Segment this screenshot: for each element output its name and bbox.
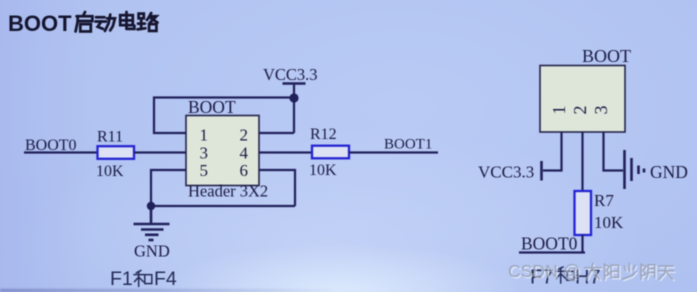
- caption F7和H7: [530, 267, 601, 289]
- power bar VCC3.3 (right): [540, 161, 543, 181]
- junction dot ground: [147, 202, 155, 210]
- wire R11 to header pin 3: [134, 151, 186, 153]
- svg-text:F4: F4: [154, 268, 177, 290]
- svg-text:BOOT0: BOOT0: [521, 234, 578, 254]
- wire pin2 to R7: [581, 132, 583, 191]
- svg-text:2: 2: [570, 106, 590, 115]
- svg-text:10K: 10K: [309, 162, 337, 179]
- resistor R11: [98, 146, 135, 159]
- svg-text:R11: R11: [97, 129, 123, 146]
- svg-text:GND: GND: [134, 242, 170, 261]
- wire pin5 to ground: [151, 170, 186, 206]
- connector J1 Header 3X2: [186, 116, 259, 186]
- svg-text:10K: 10K: [96, 163, 124, 180]
- wire pin3 to GND: [604, 132, 624, 171]
- wire VCC vertical: [293, 84, 295, 134]
- wire pin4 to R12: [259, 151, 312, 153]
- svg-text:BOOT1: BOOT1: [384, 137, 432, 153]
- watermark CSDN @太阳少阴天: [510, 263, 676, 283]
- svg-text:Header 3X2: Header 3X2: [188, 182, 268, 201]
- svg-text:F1: F1: [110, 268, 133, 290]
- svg-text:R7: R7: [594, 191, 614, 210]
- wire R7 to BOOT0: [581, 235, 583, 252]
- svg-text:VCC3.3: VCC3.3: [263, 65, 318, 84]
- caption F1和F4: [110, 268, 177, 290]
- svg-text:6: 6: [240, 161, 249, 180]
- svg-text:GND: GND: [650, 162, 688, 182]
- wire R12 to BOOT1: [349, 151, 438, 153]
- ground symbol (left): [134, 206, 170, 240]
- resistor R7: [575, 191, 592, 235]
- svg-text:BOOT: BOOT: [188, 97, 236, 117]
- wire pin6 to ground: [259, 170, 295, 206]
- svg-text:BOOT: BOOT: [582, 46, 631, 66]
- wire ground bottom run: [151, 205, 295, 207]
- svg-text:2: 2: [240, 126, 249, 145]
- svg-text:4: 4: [240, 144, 249, 163]
- wire pin2 to VCC: [259, 132, 294, 134]
- ground symbol (right, rotated): [625, 150, 645, 189]
- svg-text:3: 3: [591, 106, 611, 115]
- wire pin1 loop to VCC: [154, 98, 294, 134]
- wire pin1 to VCC3.3: [543, 132, 562, 171]
- svg-text:1: 1: [200, 126, 209, 145]
- wire BOOT0 underline: [519, 251, 585, 253]
- svg-text:BOOT: BOOT: [8, 11, 72, 36]
- title BOOT启动电路: [8, 11, 157, 36]
- svg-text:R12: R12: [310, 126, 337, 143]
- connector P1 BOOT header: [540, 66, 625, 133]
- junction dot VCC: [289, 93, 298, 102]
- svg-text:1: 1: [549, 106, 569, 115]
- svg-text:5: 5: [200, 161, 209, 180]
- power bar VCC3.3: [283, 82, 306, 85]
- svg-text:3: 3: [200, 144, 209, 163]
- svg-text:10K: 10K: [594, 213, 624, 232]
- svg-text:CSDN @: CSDN @: [508, 261, 580, 281]
- resistor R12: [312, 146, 349, 159]
- svg-text:VCC3.3: VCC3.3: [478, 163, 534, 182]
- wire BOOT0 to R11: [24, 151, 97, 153]
